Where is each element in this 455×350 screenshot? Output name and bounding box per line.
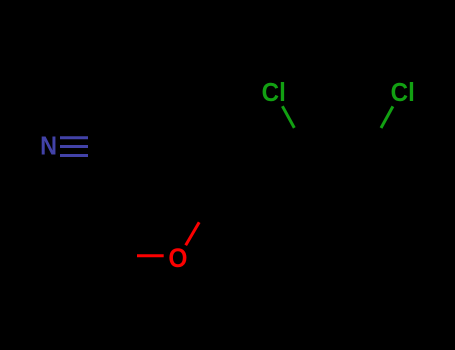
bond C2 to Cl left (green chlorine half) — [282, 106, 294, 128]
bond CH to O (carbon half, black-on-black) — [199, 199, 213, 222]
bond O to methyl (red oxygen half) — [137, 254, 164, 257]
nitrile triple bond C#N (blue nitrogen half) — [60, 138, 88, 156]
ring edge C3-C4 — [370, 150, 402, 205]
bond CH to O (red oxygen half) — [186, 222, 200, 245]
bond C2 to Cl left (carbon half, black-on-black) — [294, 128, 306, 150]
bond O to methyl (carbon half, black-on-black) — [110, 254, 137, 257]
nitrile triple bond C#N (carbon half, black-on-black) — [88, 138, 116, 156]
wire: bond from nitrile carbon to CH vertex (black-on-black) — [116, 147, 213, 200]
bond C3 to Cl right (carbon half, black-on-black) — [370, 128, 382, 150]
aromatic inner line C4=C5 — [369, 207, 394, 250]
svg-text:Cl: Cl — [262, 78, 286, 107]
ring edge C5-C6 — [307, 257, 370, 260]
svg-text:N: N — [40, 133, 57, 161]
ring edge C4-C5 — [370, 204, 402, 259]
wire: bond CH to ring C1 (black-on-black) — [213, 199, 275, 204]
benzene ring (black-on-black) — [275, 150, 401, 259]
bond C3 to Cl right (green chlorine half) — [381, 106, 393, 128]
ring edge C2-C3 — [307, 148, 370, 152]
aromatic inner line C2=C3 — [313, 155, 363, 158]
ring edge C6-C1 — [275, 204, 307, 259]
ring edge C1-C2 — [275, 150, 307, 204]
svg-text:Cl: Cl — [391, 78, 415, 107]
aromatic inner line C6=C1 — [283, 208, 308, 251]
svg-text:O: O — [168, 244, 187, 273]
